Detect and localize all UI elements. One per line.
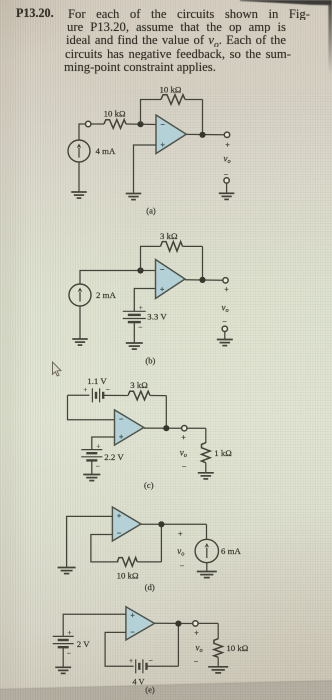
svg-text:3 kΩ: 3 kΩ — [160, 231, 178, 241]
svg-text:+: + — [181, 433, 186, 442]
svg-text:−: − — [117, 528, 122, 537]
svg-text:+: + — [178, 529, 183, 538]
svg-text:+: + — [160, 285, 165, 294]
svg-text:+: + — [130, 611, 135, 620]
svg-text:2 V: 2 V — [77, 639, 90, 649]
svg-text:vo: vo — [222, 303, 229, 315]
svg-text:2 mA: 2 mA — [96, 290, 116, 300]
svg-text:+: + — [224, 285, 229, 294]
svg-text:10 kΩ: 10 kΩ — [160, 85, 182, 95]
svg-text:+: + — [67, 629, 71, 637]
svg-text:−: − — [194, 657, 199, 666]
svg-text:−: − — [161, 120, 166, 129]
svg-text:(a): (a) — [146, 206, 156, 216]
svg-text:+: + — [161, 140, 166, 149]
svg-text:vo: vo — [224, 154, 231, 166]
svg-text:10 kΩ: 10 kΩ — [226, 643, 248, 653]
svg-text:4 mA: 4 mA — [96, 146, 116, 156]
svg-text:−: − — [67, 649, 71, 657]
svg-text:−: − — [222, 317, 227, 326]
svg-text:6 mA: 6 mA — [221, 546, 241, 556]
svg-text:(e): (e) — [145, 685, 155, 695]
svg-text:−: − — [119, 414, 124, 423]
svg-text:2.2 V: 2.2 V — [104, 452, 124, 462]
svg-text:−: − — [182, 462, 187, 471]
svg-text:−: − — [106, 386, 110, 394]
svg-text:+: + — [117, 511, 122, 520]
svg-text:−: − — [96, 462, 100, 470]
svg-text:(c): (c) — [144, 480, 154, 490]
svg-text:+: + — [225, 141, 230, 150]
svg-text:3 kΩ: 3 kΩ — [130, 380, 148, 390]
svg-text:−: − — [180, 561, 185, 570]
svg-text:1 kΩ: 1 kΩ — [214, 448, 232, 458]
svg-text:−: − — [138, 323, 142, 331]
svg-text:+: + — [139, 304, 143, 312]
svg-text:−: − — [149, 657, 153, 665]
svg-text:+: + — [194, 629, 199, 638]
svg-text:10 kΩ: 10 kΩ — [117, 571, 139, 581]
svg-text:vo: vo — [196, 643, 203, 655]
svg-text:+: + — [96, 442, 100, 450]
svg-text:+: + — [83, 386, 87, 394]
svg-text:−: − — [130, 628, 135, 637]
svg-text:+: + — [129, 657, 133, 665]
svg-text:−: − — [160, 265, 165, 274]
svg-text:+: + — [119, 432, 124, 441]
svg-text:1.1 V: 1.1 V — [87, 376, 107, 386]
svg-text:vo: vo — [180, 447, 187, 459]
svg-text:vo: vo — [177, 546, 184, 558]
svg-text:(d): (d) — [145, 582, 155, 592]
svg-text:10 kΩ: 10 kΩ — [104, 108, 126, 118]
svg-text:4 V: 4 V — [132, 678, 144, 687]
svg-text:3.3 V: 3.3 V — [147, 311, 167, 321]
svg-text:(b): (b) — [145, 356, 155, 366]
